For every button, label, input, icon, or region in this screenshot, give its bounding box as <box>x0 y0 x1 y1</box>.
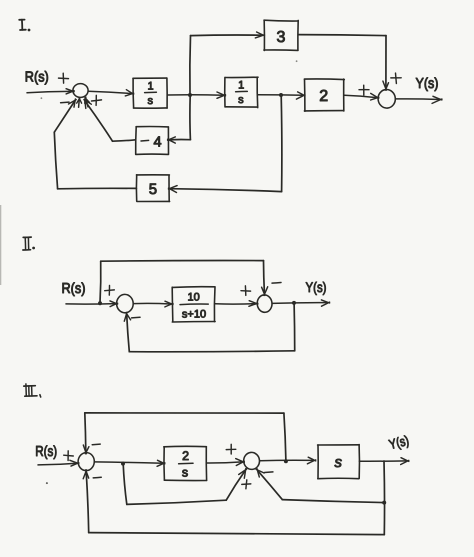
svg-text:s: s <box>147 95 153 107</box>
svg-text:R(s): R(s) <box>35 444 57 460</box>
svg-text:s+10: s+10 <box>182 308 206 320</box>
svg-text:R(s): R(s) <box>25 70 49 86</box>
svg-text:Y(s): Y(s) <box>416 76 439 92</box>
svg-text:s: s <box>238 94 244 106</box>
svg-text:4: 4 <box>153 135 161 151</box>
svg-text:10: 10 <box>187 291 199 303</box>
svg-text:R(s): R(s) <box>62 281 86 297</box>
svg-text:2: 2 <box>319 88 328 105</box>
svg-text:2: 2 <box>182 449 189 463</box>
svg-text:s: s <box>335 454 343 471</box>
svg-text:Y(s): Y(s) <box>306 279 327 295</box>
svg-text:5: 5 <box>149 181 157 198</box>
svg-text:1: 1 <box>238 80 244 92</box>
svg-text:s: s <box>182 465 188 479</box>
svg-text:3: 3 <box>277 29 286 46</box>
svg-text:1: 1 <box>148 81 154 93</box>
